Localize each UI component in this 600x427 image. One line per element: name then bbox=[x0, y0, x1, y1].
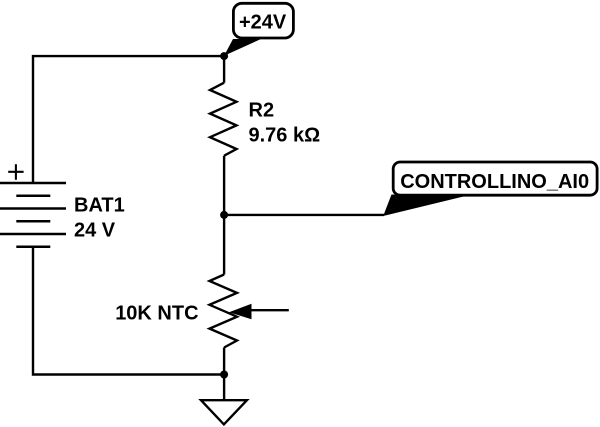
battery BAT1 plate short 1 bbox=[16, 195, 50, 198]
svg-text:R2: R2 bbox=[249, 100, 275, 122]
thermistor 10K NTC arrowhead bbox=[229, 304, 252, 320]
thermistor 10K NTC body bbox=[210, 275, 238, 348]
svg-text:+24V: +24V bbox=[239, 11, 287, 33]
wire middle node to thermistor top bbox=[223, 215, 225, 275]
wire battery minus down and along bottom to ground node bbox=[33, 247, 224, 375]
node top junction bbox=[220, 52, 228, 60]
battery BAT1 plate long 2 bbox=[0, 207, 66, 210]
net flag CONTROLLINO_AI0 tail bbox=[383, 195, 465, 217]
svg-text:CONTROLLINO_AI0: CONTROLLINO_AI0 bbox=[400, 171, 589, 193]
wire thermistor bottom to ground node bbox=[223, 348, 225, 375]
node ground junction bbox=[220, 371, 228, 379]
wire left and top from battery plus to top node bbox=[33, 56, 224, 183]
battery BAT1 plate short 3 bbox=[16, 246, 50, 249]
wire resistor R2 bottom to middle node bbox=[223, 156, 225, 215]
battery BAT1 plate long 1 bbox=[0, 182, 66, 185]
ground symbol bbox=[201, 400, 247, 424]
resistor R2 bbox=[210, 83, 237, 156]
node middle junction bbox=[220, 211, 228, 219]
svg-text:9.76 kΩ: 9.76 kΩ bbox=[249, 125, 321, 147]
battery BAT1 plate long 3 bbox=[0, 233, 66, 236]
thermistor 10K NTC arrow wire bbox=[251, 309, 289, 311]
wire ground stem bbox=[223, 375, 225, 401]
svg-text:BAT1: BAT1 bbox=[74, 195, 125, 217]
wire top node to resistor R2 bbox=[223, 56, 225, 83]
svg-text:10K NTC: 10K NTC bbox=[115, 303, 198, 325]
power flag +24V tail bbox=[224, 39, 261, 56]
net flag CONTROLLINO_AI0 box bbox=[393, 162, 597, 195]
battery BAT1 plate short 2 bbox=[16, 220, 50, 223]
battery BAT1 plus sign bbox=[8, 164, 23, 179]
svg-text:24 V: 24 V bbox=[74, 220, 116, 242]
wire middle node to net flag bbox=[224, 214, 384, 216]
power flag +24V box bbox=[233, 3, 293, 38]
